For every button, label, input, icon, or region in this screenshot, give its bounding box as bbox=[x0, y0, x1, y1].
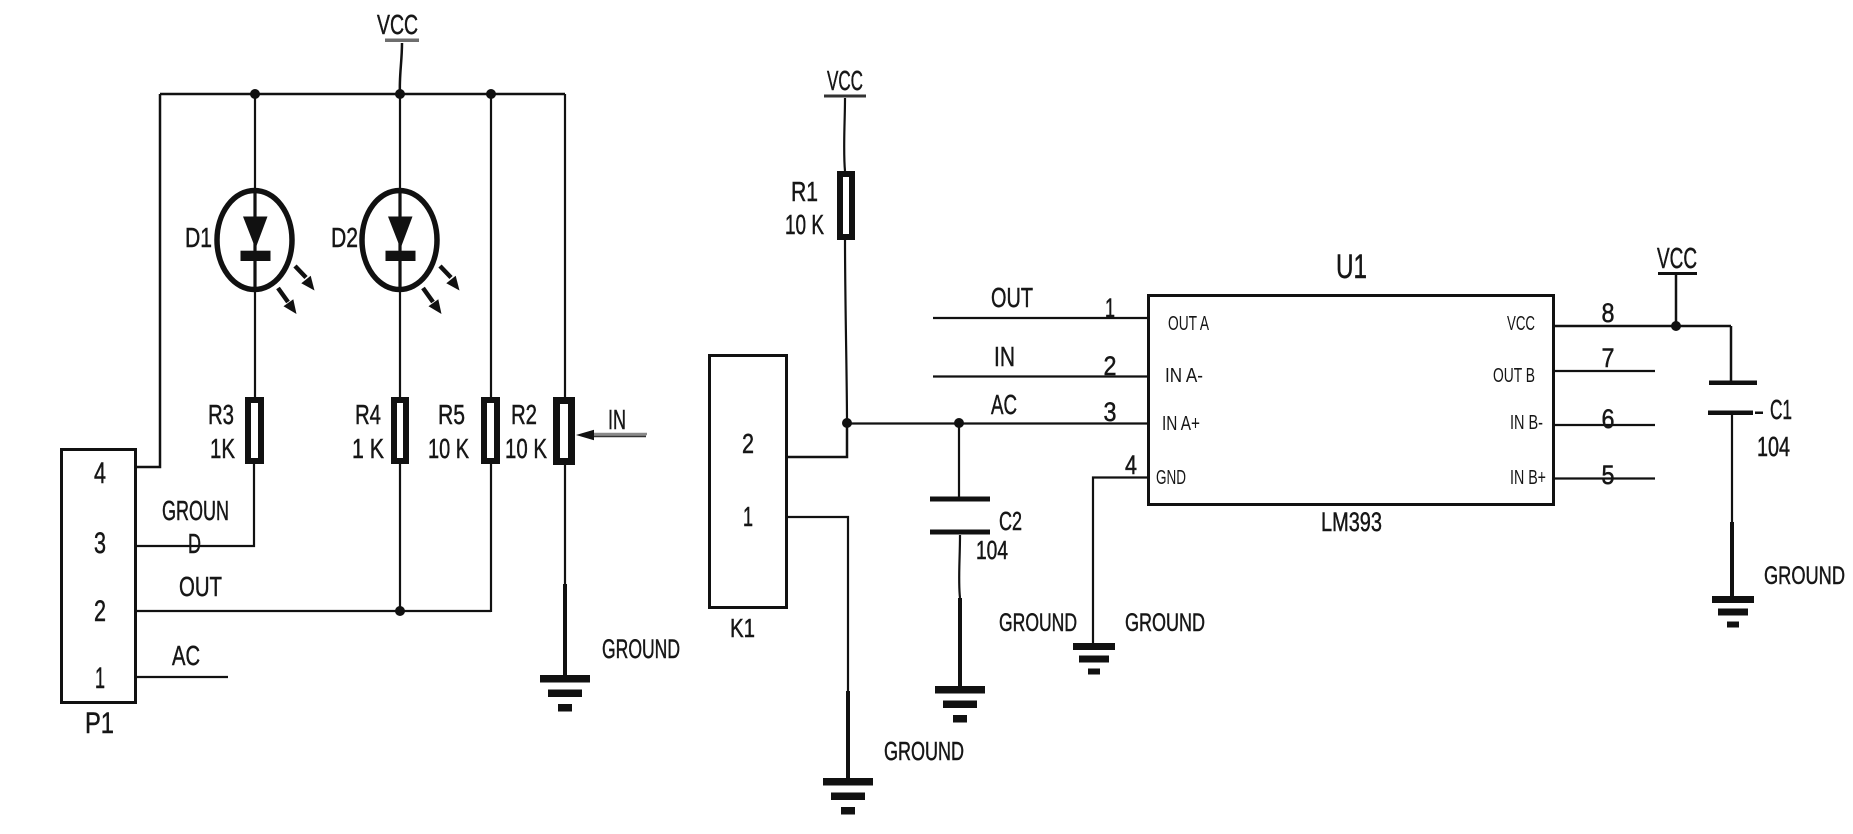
resistor R4 bbox=[394, 400, 406, 461]
svg-text:AC: AC bbox=[991, 389, 1017, 420]
svg-text:IN B+: IN B+ bbox=[1510, 467, 1546, 489]
wire D2 cathode to R4 bbox=[399, 287, 401, 397]
svg-text:AC: AC bbox=[172, 640, 200, 671]
capacitor C1 bbox=[1708, 326, 1763, 415]
svg-text:OUT A: OUT A bbox=[1168, 313, 1209, 335]
node junction dot AC/R1 bbox=[842, 418, 852, 428]
connector K1 bbox=[710, 356, 787, 608]
wire OUT net pin2 bbox=[137, 610, 491, 612]
node junction dot VCC/pin8 bbox=[1671, 321, 1681, 331]
svg-text:R4: R4 bbox=[355, 399, 381, 430]
capacitor C2 bbox=[930, 423, 990, 535]
wire D2 anode bbox=[399, 94, 401, 193]
svg-text:K1: K1 bbox=[730, 613, 755, 643]
svg-text:1: 1 bbox=[743, 501, 753, 532]
svg-text:P1: P1 bbox=[85, 707, 114, 740]
wire R5 bottom to OUT net bbox=[490, 464, 492, 612]
LED D1 bbox=[217, 191, 315, 315]
wire U1 pin1 bbox=[933, 317, 1148, 319]
svg-text:VCC: VCC bbox=[377, 9, 418, 40]
svg-text:10 K: 10 K bbox=[428, 433, 469, 464]
svg-text:10 K: 10 K bbox=[785, 209, 824, 240]
svg-text:GROUND: GROUND bbox=[999, 609, 1077, 637]
svg-text:2: 2 bbox=[1104, 351, 1117, 381]
svg-text:D: D bbox=[188, 528, 201, 559]
svg-text:GND: GND bbox=[1156, 467, 1186, 489]
label C2 value bbox=[976, 506, 1022, 565]
node junction dot D1/VCC rail bbox=[250, 89, 260, 99]
IC U1 box bbox=[1149, 296, 1554, 505]
connector P1 bbox=[62, 450, 136, 703]
svg-text:7: 7 bbox=[1602, 343, 1615, 373]
wire U1 pin8 VCC net bbox=[1554, 325, 1731, 328]
ground below K1 bbox=[823, 778, 873, 815]
wire U1 pin2 bbox=[933, 375, 1148, 377]
net label GROUND (wrapped) on pin 3 bbox=[162, 495, 229, 559]
wire R3 to P1 pin 3 bbox=[137, 464, 254, 546]
svg-text:R2: R2 bbox=[511, 399, 537, 430]
svg-text:D1: D1 bbox=[185, 222, 212, 253]
power VCC (middle) bbox=[824, 65, 866, 171]
svg-text:10 K: 10 K bbox=[505, 433, 547, 464]
resistor R1 bbox=[840, 174, 852, 237]
wire AC net to U1 pin3 bbox=[847, 422, 1148, 424]
svg-text:R1: R1 bbox=[791, 176, 818, 207]
wire U1 pin7 stub bbox=[1554, 370, 1655, 372]
wire C2 to ground bbox=[958, 535, 961, 687]
svg-text:GROUND: GROUND bbox=[884, 736, 964, 766]
svg-text:IN: IN bbox=[608, 404, 626, 435]
label R1 value bbox=[785, 176, 824, 240]
wire R1 bottom to AC node bbox=[845, 240, 847, 423]
resistor R3 bbox=[248, 400, 261, 461]
wire C1 to ground bbox=[1731, 415, 1733, 597]
svg-text:C2: C2 bbox=[999, 506, 1022, 536]
label R4 value bbox=[352, 399, 384, 464]
svg-text:IN A-: IN A- bbox=[1165, 365, 1203, 387]
svg-text:3: 3 bbox=[94, 527, 106, 560]
svg-text:2: 2 bbox=[742, 428, 754, 459]
svg-text:D2: D2 bbox=[331, 222, 358, 253]
wire top rail VCC net bbox=[160, 93, 565, 96]
svg-text:GROUND: GROUND bbox=[1125, 609, 1205, 637]
svg-text:1 K: 1 K bbox=[352, 433, 384, 464]
node junction dot AC/C2 bbox=[954, 418, 964, 428]
node junction dot VCC feed bbox=[395, 89, 405, 99]
svg-text:LM393: LM393 bbox=[1321, 507, 1382, 537]
wire D1 cathode to R3 bbox=[254, 287, 256, 397]
wire R2 bottom to ground bbox=[564, 465, 566, 676]
power VCC (right) bbox=[1657, 243, 1697, 326]
wire left vertical from P1 pin 4 bbox=[137, 94, 160, 467]
label R3 value bbox=[208, 399, 235, 464]
svg-text:104: 104 bbox=[1757, 431, 1790, 462]
LED D2 bbox=[362, 191, 460, 315]
wire K1 pin2 to AC node bbox=[788, 423, 847, 457]
svg-text:OUT B: OUT B bbox=[1493, 365, 1535, 387]
resistor R5 bbox=[484, 400, 497, 461]
svg-text:4: 4 bbox=[94, 457, 106, 490]
wire U1 pin5 stub bbox=[1554, 477, 1655, 479]
svg-text:VCC: VCC bbox=[827, 65, 863, 96]
wiper arrow IN into R2 bbox=[576, 404, 647, 440]
ground below R2 bbox=[540, 675, 590, 712]
svg-text:1: 1 bbox=[1105, 293, 1115, 323]
svg-text:1: 1 bbox=[95, 662, 105, 695]
wire U1 pin6 stub bbox=[1554, 424, 1655, 426]
svg-text:OUT: OUT bbox=[991, 282, 1033, 313]
svg-text:IN A+: IN A+ bbox=[1162, 413, 1200, 435]
ground below U1 pin4 bbox=[1073, 643, 1115, 675]
svg-text:R3: R3 bbox=[208, 399, 234, 430]
svg-text:VCC: VCC bbox=[1507, 313, 1535, 335]
power VCC (top left) bbox=[377, 9, 419, 94]
svg-text:OUT: OUT bbox=[179, 571, 222, 602]
wire R5 top bbox=[490, 94, 492, 397]
potentiometer R2 bbox=[557, 401, 572, 462]
wire R2 top bbox=[564, 94, 566, 397]
node junction dot R4/OUT bbox=[395, 606, 405, 616]
wire R4 bottom to OUT net bbox=[399, 464, 401, 611]
wire AC stub pin1 bbox=[137, 676, 228, 678]
label R5 value bbox=[428, 399, 469, 464]
label R2 value bbox=[505, 399, 547, 464]
svg-text:5: 5 bbox=[1602, 460, 1615, 490]
svg-text:GROUND: GROUND bbox=[602, 634, 680, 664]
ground below C2 bbox=[935, 686, 985, 723]
svg-text:U1: U1 bbox=[1336, 248, 1367, 286]
svg-text:1K: 1K bbox=[210, 433, 235, 464]
label C1 value bbox=[1757, 394, 1792, 462]
svg-text:C1: C1 bbox=[1770, 394, 1792, 425]
svg-text:VCC: VCC bbox=[1657, 243, 1697, 275]
wire K1 pin1 to ground bbox=[788, 517, 848, 779]
svg-text:2: 2 bbox=[94, 595, 106, 628]
wire D1 anode bbox=[254, 94, 256, 193]
svg-text:4: 4 bbox=[1125, 450, 1137, 480]
svg-text:R5: R5 bbox=[438, 399, 465, 430]
svg-text:6: 6 bbox=[1602, 404, 1615, 434]
svg-text:3: 3 bbox=[1104, 397, 1117, 427]
svg-text:GROUN: GROUN bbox=[162, 495, 229, 526]
svg-text:IN: IN bbox=[994, 341, 1015, 372]
svg-text:IN B-: IN B- bbox=[1510, 412, 1543, 434]
node junction dot R5/VCC rail bbox=[486, 89, 496, 99]
svg-text:104: 104 bbox=[976, 535, 1008, 565]
ground below C1 bbox=[1712, 596, 1754, 628]
svg-text:GROUND: GROUND bbox=[1764, 562, 1845, 590]
svg-text:8: 8 bbox=[1602, 298, 1615, 328]
wire U1 GND pin4 to ground bbox=[1093, 478, 1148, 644]
